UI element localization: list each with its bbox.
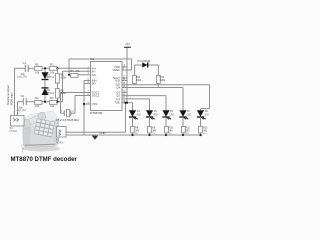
svg-text:390: 390 (203, 129, 208, 132)
svg-text:300k: 300k (136, 79, 142, 82)
svg-text:5%: 5% (169, 133, 172, 135)
svg-text:390: 390 (169, 129, 174, 132)
svg-text:R2: R2 (35, 96, 39, 100)
svg-text:600R input: 600R input (9, 92, 13, 105)
svg-text:390: 390 (152, 129, 157, 132)
svg-text:D3 1N4148: D3 1N4148 (137, 60, 150, 63)
svg-text:MT8870 DTMF decoder: MT8870 DTMF decoder (11, 156, 78, 163)
svg-text:R3: R3 (50, 63, 54, 67)
svg-text:ZPY12: ZPY12 (47, 92, 55, 95)
svg-text:LED: LED (136, 113, 141, 116)
svg-text:GS: GS (92, 73, 96, 77)
svg-text:LED: LED (187, 113, 192, 116)
svg-text:5%: 5% (152, 133, 155, 135)
svg-text:100k: 100k (60, 76, 66, 79)
svg-text:10k: 10k (35, 71, 40, 75)
svg-text:390k: 390k (160, 79, 166, 82)
svg-text:ZPY12: ZPY12 (47, 76, 55, 79)
svg-text:10k: 10k (50, 104, 55, 108)
svg-text:smd_2kV: smd_2kV (17, 75, 27, 78)
svg-text:PC30A: PC30A (10, 130, 18, 133)
svg-text:PD: PD (92, 82, 96, 86)
svg-text:TOE: TOE (114, 101, 120, 105)
svg-text:5%: 5% (203, 133, 206, 135)
svg-text:C1: C1 (23, 61, 27, 65)
svg-text:MT8870B: MT8870B (90, 111, 102, 115)
svg-text:XT.al 3.579545 MHz: XT.al 3.579545 MHz (56, 118, 80, 122)
svg-text:GND: GND (100, 131, 106, 135)
svg-text:5%: 5% (186, 133, 189, 135)
svg-text:smd_2kV: smd_2kV (17, 109, 27, 112)
svg-text:100k: 100k (60, 92, 66, 95)
svg-text:390: 390 (186, 129, 191, 132)
svg-text:10k: 10k (35, 104, 40, 108)
svg-text:R7: R7 (70, 69, 74, 73)
svg-text:LED: LED (153, 113, 158, 116)
svg-text:C2: C2 (21, 94, 25, 98)
svg-text:390: 390 (135, 129, 140, 132)
svg-text:LED: LED (170, 113, 175, 116)
svg-text:Q4: Q4 (116, 86, 120, 90)
svg-text:OSC2: OSC2 (92, 94, 100, 98)
svg-text:R4: R4 (50, 96, 54, 100)
svg-text:IC1: IC1 (90, 57, 95, 61)
svg-text:10k: 10k (50, 71, 55, 75)
svg-text:R1: R1 (35, 63, 39, 67)
svg-text:+5V: +5V (125, 42, 130, 46)
svg-text:VSS: VSS (92, 102, 98, 106)
svg-text:PC90A: PC90A (56, 142, 64, 145)
svg-text:VREF: VREF (113, 68, 121, 72)
svg-text:LED: LED (204, 113, 209, 116)
svg-text:5%: 5% (135, 133, 138, 135)
